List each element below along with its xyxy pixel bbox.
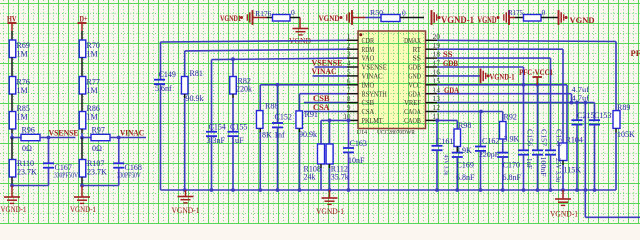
svg-text:90.9k: 90.9k	[299, 130, 317, 139]
svg-text:R107: R107	[87, 159, 104, 168]
svg-text:DMAX: DMAX	[404, 36, 421, 45]
svg-text:3.3nF: 3.3nF	[207, 136, 226, 145]
svg-text:CSB: CSB	[362, 98, 375, 107]
svg-text:100nF: 100nF	[539, 157, 547, 177]
svg-text:VGND-1: VGND-1	[490, 72, 515, 82]
svg-text:IMO: IMO	[362, 80, 375, 89]
svg-text:PKLMT: PKLMT	[362, 116, 383, 125]
svg-text:2: 2	[347, 42, 351, 50]
svg-text:C163: C163	[350, 139, 367, 148]
svg-text:4: 4	[347, 60, 351, 68]
svg-text:90.9k: 90.9k	[186, 94, 204, 103]
svg-text:PFC-VCC1: PFC-VCC1	[519, 67, 553, 77]
svg-text:UCC28070DWR: UCC28070DWR	[377, 129, 416, 136]
svg-text:4.7uf: 4.7uf	[572, 94, 590, 102]
svg-text:10nF: 10nF	[348, 156, 365, 165]
svg-text:U14: U14	[357, 129, 368, 136]
svg-text:C158: C158	[555, 129, 563, 147]
svg-text:C153: C153	[594, 111, 611, 120]
svg-text:0: 0	[402, 9, 406, 18]
svg-text:VGND-1: VGND-1	[441, 15, 474, 25]
svg-text:1uF: 1uF	[525, 158, 533, 169]
svg-text:VSENSE: VSENSE	[362, 63, 388, 72]
svg-text:GDB: GDB	[408, 63, 421, 72]
svg-text:GND: GND	[408, 72, 421, 81]
svg-text:VGND-1: VGND-1	[316, 207, 344, 216]
svg-text:7: 7	[347, 86, 351, 94]
svg-text:RDM: RDM	[362, 45, 375, 54]
svg-text:1M: 1M	[17, 86, 28, 95]
svg-text:4.7uf: 4.7uf	[572, 86, 590, 94]
svg-text:1uF: 1uF	[231, 136, 244, 145]
svg-text:VGND-1: VGND-1	[550, 210, 578, 219]
svg-text:VREF: VREF	[404, 98, 421, 107]
svg-text:1M: 1M	[17, 50, 28, 59]
svg-text:R104: R104	[566, 135, 583, 144]
svg-text:6.8nF: 6.8nF	[456, 173, 475, 182]
svg-text:C154: C154	[209, 123, 226, 132]
svg-text:VGND-1: VGND-1	[172, 206, 200, 215]
svg-text:VGND-1: VGND-1	[70, 205, 96, 214]
svg-text:RT: RT	[413, 45, 422, 54]
svg-text:R175: R175	[508, 8, 523, 17]
svg-text:GDA: GDA	[408, 89, 421, 98]
svg-text:CDR: CDR	[362, 36, 375, 45]
svg-text:6.8nF: 6.8nF	[503, 173, 522, 182]
svg-text:C162: C162	[482, 137, 499, 146]
svg-text:VGND: VGND	[319, 13, 340, 23]
svg-text:VINAC: VINAC	[362, 72, 383, 81]
svg-text:105K: 105K	[617, 130, 635, 139]
svg-text:VAO: VAO	[362, 54, 375, 63]
svg-text:45V 3.3u: 45V 3.3u	[442, 155, 449, 177]
svg-text:R96: R96	[22, 126, 35, 135]
svg-text:220k: 220k	[236, 85, 252, 94]
svg-text:C169: C169	[457, 161, 474, 170]
svg-text:0Ω: 0Ω	[92, 144, 102, 153]
svg-text:9: 9	[347, 104, 351, 112]
svg-text:R176: R176	[255, 9, 271, 18]
svg-text:220pF: 220pF	[479, 150, 499, 159]
svg-text:PFC: PFC	[631, 48, 640, 58]
svg-text:R81: R81	[190, 69, 203, 78]
svg-text:330PF50V: 330PF50V	[54, 171, 78, 180]
svg-text:R97: R97	[92, 126, 105, 135]
svg-text:VGND: VGND	[478, 15, 497, 25]
svg-text:330PF50V: 330PF50V	[117, 171, 141, 180]
svg-text:0: 0	[291, 8, 295, 17]
svg-text:C170: C170	[503, 161, 520, 170]
svg-text:1M: 1M	[17, 113, 28, 122]
svg-text:1M: 1M	[87, 50, 98, 59]
svg-text:3: 3	[347, 51, 351, 59]
svg-text:35.7k: 35.7k	[331, 173, 349, 182]
svg-text:1M: 1M	[87, 113, 98, 122]
svg-text:VGND: VGND	[570, 15, 595, 25]
svg-text:8: 8	[347, 95, 351, 103]
svg-text:VSENSE: VSENSE	[49, 128, 79, 138]
svg-text:115K: 115K	[564, 166, 582, 175]
svg-text:1nf: 1nf	[274, 131, 285, 140]
svg-text:R92: R92	[504, 113, 517, 122]
svg-text:R88: R88	[265, 102, 278, 111]
svg-text:23.7K: 23.7K	[87, 168, 107, 177]
svg-text:1M: 1M	[87, 86, 98, 95]
svg-text:C149: C149	[159, 70, 176, 79]
svg-text:GDB: GDB	[443, 58, 458, 68]
svg-text:VGND1: VGND1	[220, 13, 241, 23]
svg-text:VGND-1: VGND-1	[1, 205, 27, 214]
svg-text:CSA: CSA	[362, 107, 375, 116]
svg-text:CAOB: CAOB	[404, 116, 421, 125]
svg-text:SS: SS	[413, 54, 421, 63]
svg-text:0: 0	[542, 8, 546, 17]
svg-text:23.7K: 23.7K	[17, 168, 37, 177]
svg-text:VINAC: VINAC	[120, 128, 144, 138]
svg-text:C157: C157	[540, 129, 548, 147]
svg-text:RSYNTH: RSYNTH	[362, 89, 388, 98]
svg-text:C155: C155	[230, 123, 247, 132]
svg-text:3.9K: 3.9K	[456, 146, 472, 155]
svg-text:5: 5	[347, 69, 351, 77]
svg-text:0Ω: 0Ω	[22, 144, 32, 153]
svg-text:1: 1	[347, 33, 351, 41]
svg-text:GDA: GDA	[444, 85, 460, 95]
svg-text:CSA: CSA	[313, 102, 330, 112]
svg-text:VCC: VCC	[408, 80, 421, 89]
svg-text:24k: 24k	[304, 173, 316, 182]
svg-text:C152: C152	[275, 113, 292, 122]
svg-text:R110: R110	[17, 159, 34, 168]
svg-text:VINAC: VINAC	[312, 66, 337, 76]
svg-text:C161: C161	[436, 137, 453, 146]
svg-text:C156: C156	[526, 129, 534, 147]
svg-text:6: 6	[347, 77, 351, 85]
svg-text:CAOA: CAOA	[404, 107, 421, 116]
svg-text:5.6nf: 5.6nf	[155, 84, 172, 93]
svg-text:25V 3.3u: 25V 3.3u	[554, 158, 562, 182]
svg-text:3.9K: 3.9K	[504, 135, 520, 144]
